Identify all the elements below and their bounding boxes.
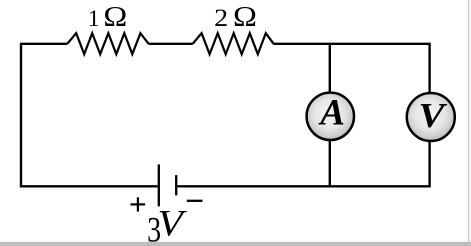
page edge: grey vertical rule at right xyxy=(468,0,469,242)
wire: left loop (top-left segment, left side, bottom-left to battery positive plate) xyxy=(21,44,158,187)
svg-text:Ω: Ω xyxy=(233,1,257,33)
svg-text:V: V xyxy=(418,97,448,136)
svg-text:A: A xyxy=(318,92,345,133)
svg-text:2: 2 xyxy=(214,3,228,31)
wire: right loop (top-right segment, right side, bottom-right to battery negative plate) xyxy=(177,44,429,187)
battery B1 short (negative) plate xyxy=(175,175,177,195)
battery B1 long (positive) plate xyxy=(158,164,160,206)
svg-text:1: 1 xyxy=(88,6,100,32)
voltmeter V (circle) xyxy=(407,93,455,141)
battery polarity "+" xyxy=(131,197,146,211)
resistor R1 (1 ohm) zigzag xyxy=(67,33,148,54)
wire: ammeter branch (vertical) xyxy=(329,44,331,187)
wire: top middle between R1 and R2 xyxy=(149,43,193,45)
battery polarity "−" xyxy=(187,200,203,202)
resistor R2 (2 ohm) zigzag xyxy=(193,33,274,54)
ammeter A (circle) xyxy=(307,93,354,140)
label R2 value "2 Ω" xyxy=(214,1,257,33)
battery value label "3V" xyxy=(147,204,187,246)
svg-text:V: V xyxy=(157,204,187,245)
svg-text:Ω: Ω xyxy=(103,1,127,33)
label R1 value "1 Ω" xyxy=(88,1,127,33)
page edge: grey bottom band xyxy=(0,242,471,246)
